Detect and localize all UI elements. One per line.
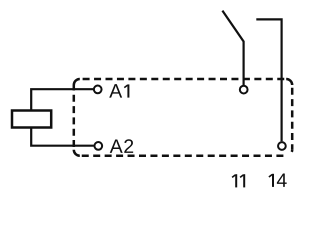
- relay body outline: top-left corner hook: [74, 79, 80, 85]
- relay body outline: bottom-right open corner dash: [286, 150, 292, 156]
- label 14: digit 1: [269, 174, 273, 187]
- coil: [12, 111, 51, 128]
- relay body outline: bottom dashed edge: [80, 155, 286, 158]
- label A1: digit 1 glyph: [124, 84, 128, 97]
- terminal 11: [240, 86, 248, 94]
- label A2: letter A: [110, 139, 123, 152]
- relay body outline: top-right corner hook: [286, 79, 292, 85]
- relay body outline: left dashed edge: [73, 85, 76, 150]
- label A2: digit 2: [124, 139, 133, 153]
- terminal A2: [94, 142, 102, 150]
- terminal 14: [278, 142, 286, 150]
- wire coil loop A1 to A2: [31, 89, 94, 146]
- relay body outline: top dashed edge: [80, 78, 286, 81]
- terminal A1: [94, 86, 102, 94]
- label 14: digit 4: [277, 173, 287, 186]
- wire switch lever to terminal 11: [222, 11, 243, 85]
- relay body outline: bottom-left corner hook: [74, 150, 80, 156]
- label A1: letter A: [109, 84, 122, 97]
- label 11: [232, 174, 244, 187]
- relay body outline: right dashed edge: [291, 85, 294, 150]
- wire fixed contact to terminal 14: [256, 19, 281, 141]
